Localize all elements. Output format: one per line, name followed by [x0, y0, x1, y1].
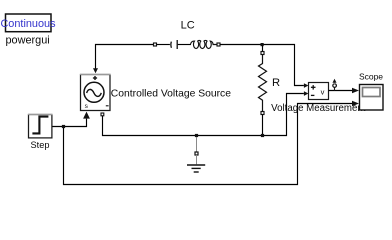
svg-text:Scope: Scope — [359, 71, 383, 81]
arrowhead into scope in1 — [352, 88, 359, 93]
scope block — [360, 85, 384, 111]
powergui block (Continuous) — [0, 14, 56, 32]
port: ground — [195, 152, 198, 155]
junction dot: ground on node B rail — [195, 134, 198, 137]
inductor L (LC branch) — [190, 41, 217, 49]
svg-text:Controlled Voltage Source: Controlled Voltage Source — [111, 88, 231, 99]
svg-text:Step: Step — [31, 140, 50, 150]
unconnected stub on VM output wire — [333, 79, 337, 91]
svg-text:v: v — [321, 87, 325, 96]
arrowhead into VM + input — [304, 83, 309, 88]
port: CVS - (bottom right) — [101, 113, 104, 116]
capacitor C (LC branch) — [171, 40, 191, 49]
wire: CVS - to node B rail and up to VM - input — [103, 94, 304, 136]
port: R bottom — [261, 112, 264, 115]
arrowhead into CVS s port — [83, 112, 90, 119]
voltage measurement label (under wires) — [271, 103, 366, 114]
wire: step output to CVS s input — [52, 119, 86, 127]
ground symbol — [187, 155, 205, 172]
resistor R — [259, 55, 267, 112]
wire: VM output to scope in1 — [329, 90, 353, 92]
scope label — [359, 71, 383, 81]
arrowhead into VM - input — [304, 91, 309, 96]
wire: LC left port to capacitor — [157, 44, 170, 46]
junction dot: R bottom on node B rail — [261, 134, 264, 137]
step label — [31, 140, 50, 150]
svg-text:Continuous: Continuous — [0, 18, 56, 30]
svg-text:Voltage Measurement: Voltage Measurement — [271, 103, 366, 114]
label LC — [181, 20, 195, 32]
port: LC branch right — [217, 43, 220, 46]
voltage measurement block — [309, 83, 329, 100]
powergui label — [5, 35, 49, 47]
wire: LC right port to node A and down to VM + input — [220, 45, 304, 86]
junction dot: step output — [62, 125, 65, 128]
CVS block (Controlled Voltage Source) — [80, 75, 111, 111]
port: R top — [261, 52, 264, 55]
wire: R bottom to node B — [262, 115, 264, 136]
svg-text:R: R — [272, 77, 280, 89]
wire: node B to ground port — [196, 137, 198, 152]
label R — [272, 77, 280, 89]
svg-text:powergui: powergui — [5, 35, 49, 47]
svg-text:LC: LC — [181, 20, 195, 32]
wire: node A down to R top port — [262, 46, 264, 52]
wire: step junction to scope in2 — [64, 104, 353, 185]
step block — [28, 115, 52, 138]
junction node A dot — [261, 43, 264, 46]
arrowhead into scope in2 — [352, 101, 359, 106]
arrowhead into CVS + port — [93, 68, 98, 73]
port: LC branch left — [154, 43, 157, 46]
CVS label — [111, 88, 231, 99]
wire: CVS + up to top rail — [96, 45, 154, 71]
